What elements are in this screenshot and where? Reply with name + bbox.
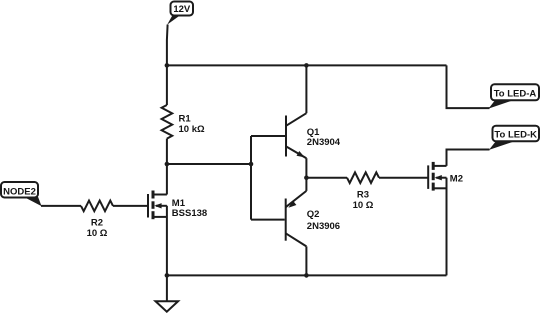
node junction ground [165, 273, 170, 278]
wire tap to transistor bases [167, 163, 251, 165]
svg-text:R1: R1 [179, 113, 192, 124]
svg-text:12V: 12V [173, 4, 191, 15]
node junction emitters [304, 175, 309, 180]
node junction Q1 collector [304, 63, 309, 68]
node junction Q2 collector [304, 273, 309, 278]
wire R1 bottom to M1 drain [166, 139, 168, 195]
svg-text:NODE2: NODE2 [3, 186, 36, 197]
nmos M1 [148, 191, 167, 220]
wire bottom rail [167, 274, 447, 276]
wire 12V to top rail [166, 25, 169, 66]
svg-text:R3: R3 [357, 189, 369, 200]
wire Q2 base lead [251, 219, 285, 221]
wire M1 source down to bottom rail [166, 206, 168, 276]
svg-text:10 kΩ: 10 kΩ [179, 124, 205, 135]
wire LED-A branch [447, 65, 490, 108]
wire R2 to M1 gate [113, 205, 148, 207]
svg-text:2N3906: 2N3906 [307, 221, 340, 232]
svg-text:M1: M1 [172, 198, 186, 209]
svg-text:To LED-K: To LED-K [494, 130, 537, 141]
svg-text:Q2: Q2 [307, 209, 320, 220]
node junction base rail [249, 162, 254, 167]
svg-text:10 Ω: 10 Ω [353, 200, 374, 211]
ground [156, 275, 179, 311]
resistor R1 [162, 105, 173, 139]
resistor R2 [81, 201, 113, 212]
npn Q1 [286, 65, 306, 177]
wire NODE2 lead [41, 205, 81, 207]
flag To LED-A [489, 84, 540, 108]
svg-text:R2: R2 [91, 217, 103, 228]
svg-text:2N3904: 2N3904 [307, 137, 341, 148]
nmos M2 [428, 162, 446, 191]
svg-text:To LED-A: To LED-A [494, 88, 537, 99]
wire base rail [250, 136, 252, 220]
svg-text:M2: M2 [450, 174, 463, 185]
wire Q1 base lead [251, 135, 285, 137]
flag To LED-K [489, 126, 539, 150]
svg-text:BSS138: BSS138 [172, 208, 207, 219]
wire R1 top lead [166, 65, 168, 105]
wire emitters to R3 [306, 177, 347, 179]
wire top rail [167, 64, 447, 66]
node junction 12V rail [165, 63, 170, 68]
flag 12V box [167, 2, 193, 25]
wire M2 source down to bottom rail [446, 178, 448, 276]
wire M2 drain to LED-K [447, 150, 490, 166]
wire R3 to M2 gate [379, 177, 428, 179]
flag NODE2 [1, 182, 42, 206]
resistor R3 [347, 172, 379, 183]
svg-text:10 Ω: 10 Ω [87, 228, 108, 239]
node junction R1-M1 tap [165, 162, 170, 167]
pnp Q2 [286, 178, 307, 276]
